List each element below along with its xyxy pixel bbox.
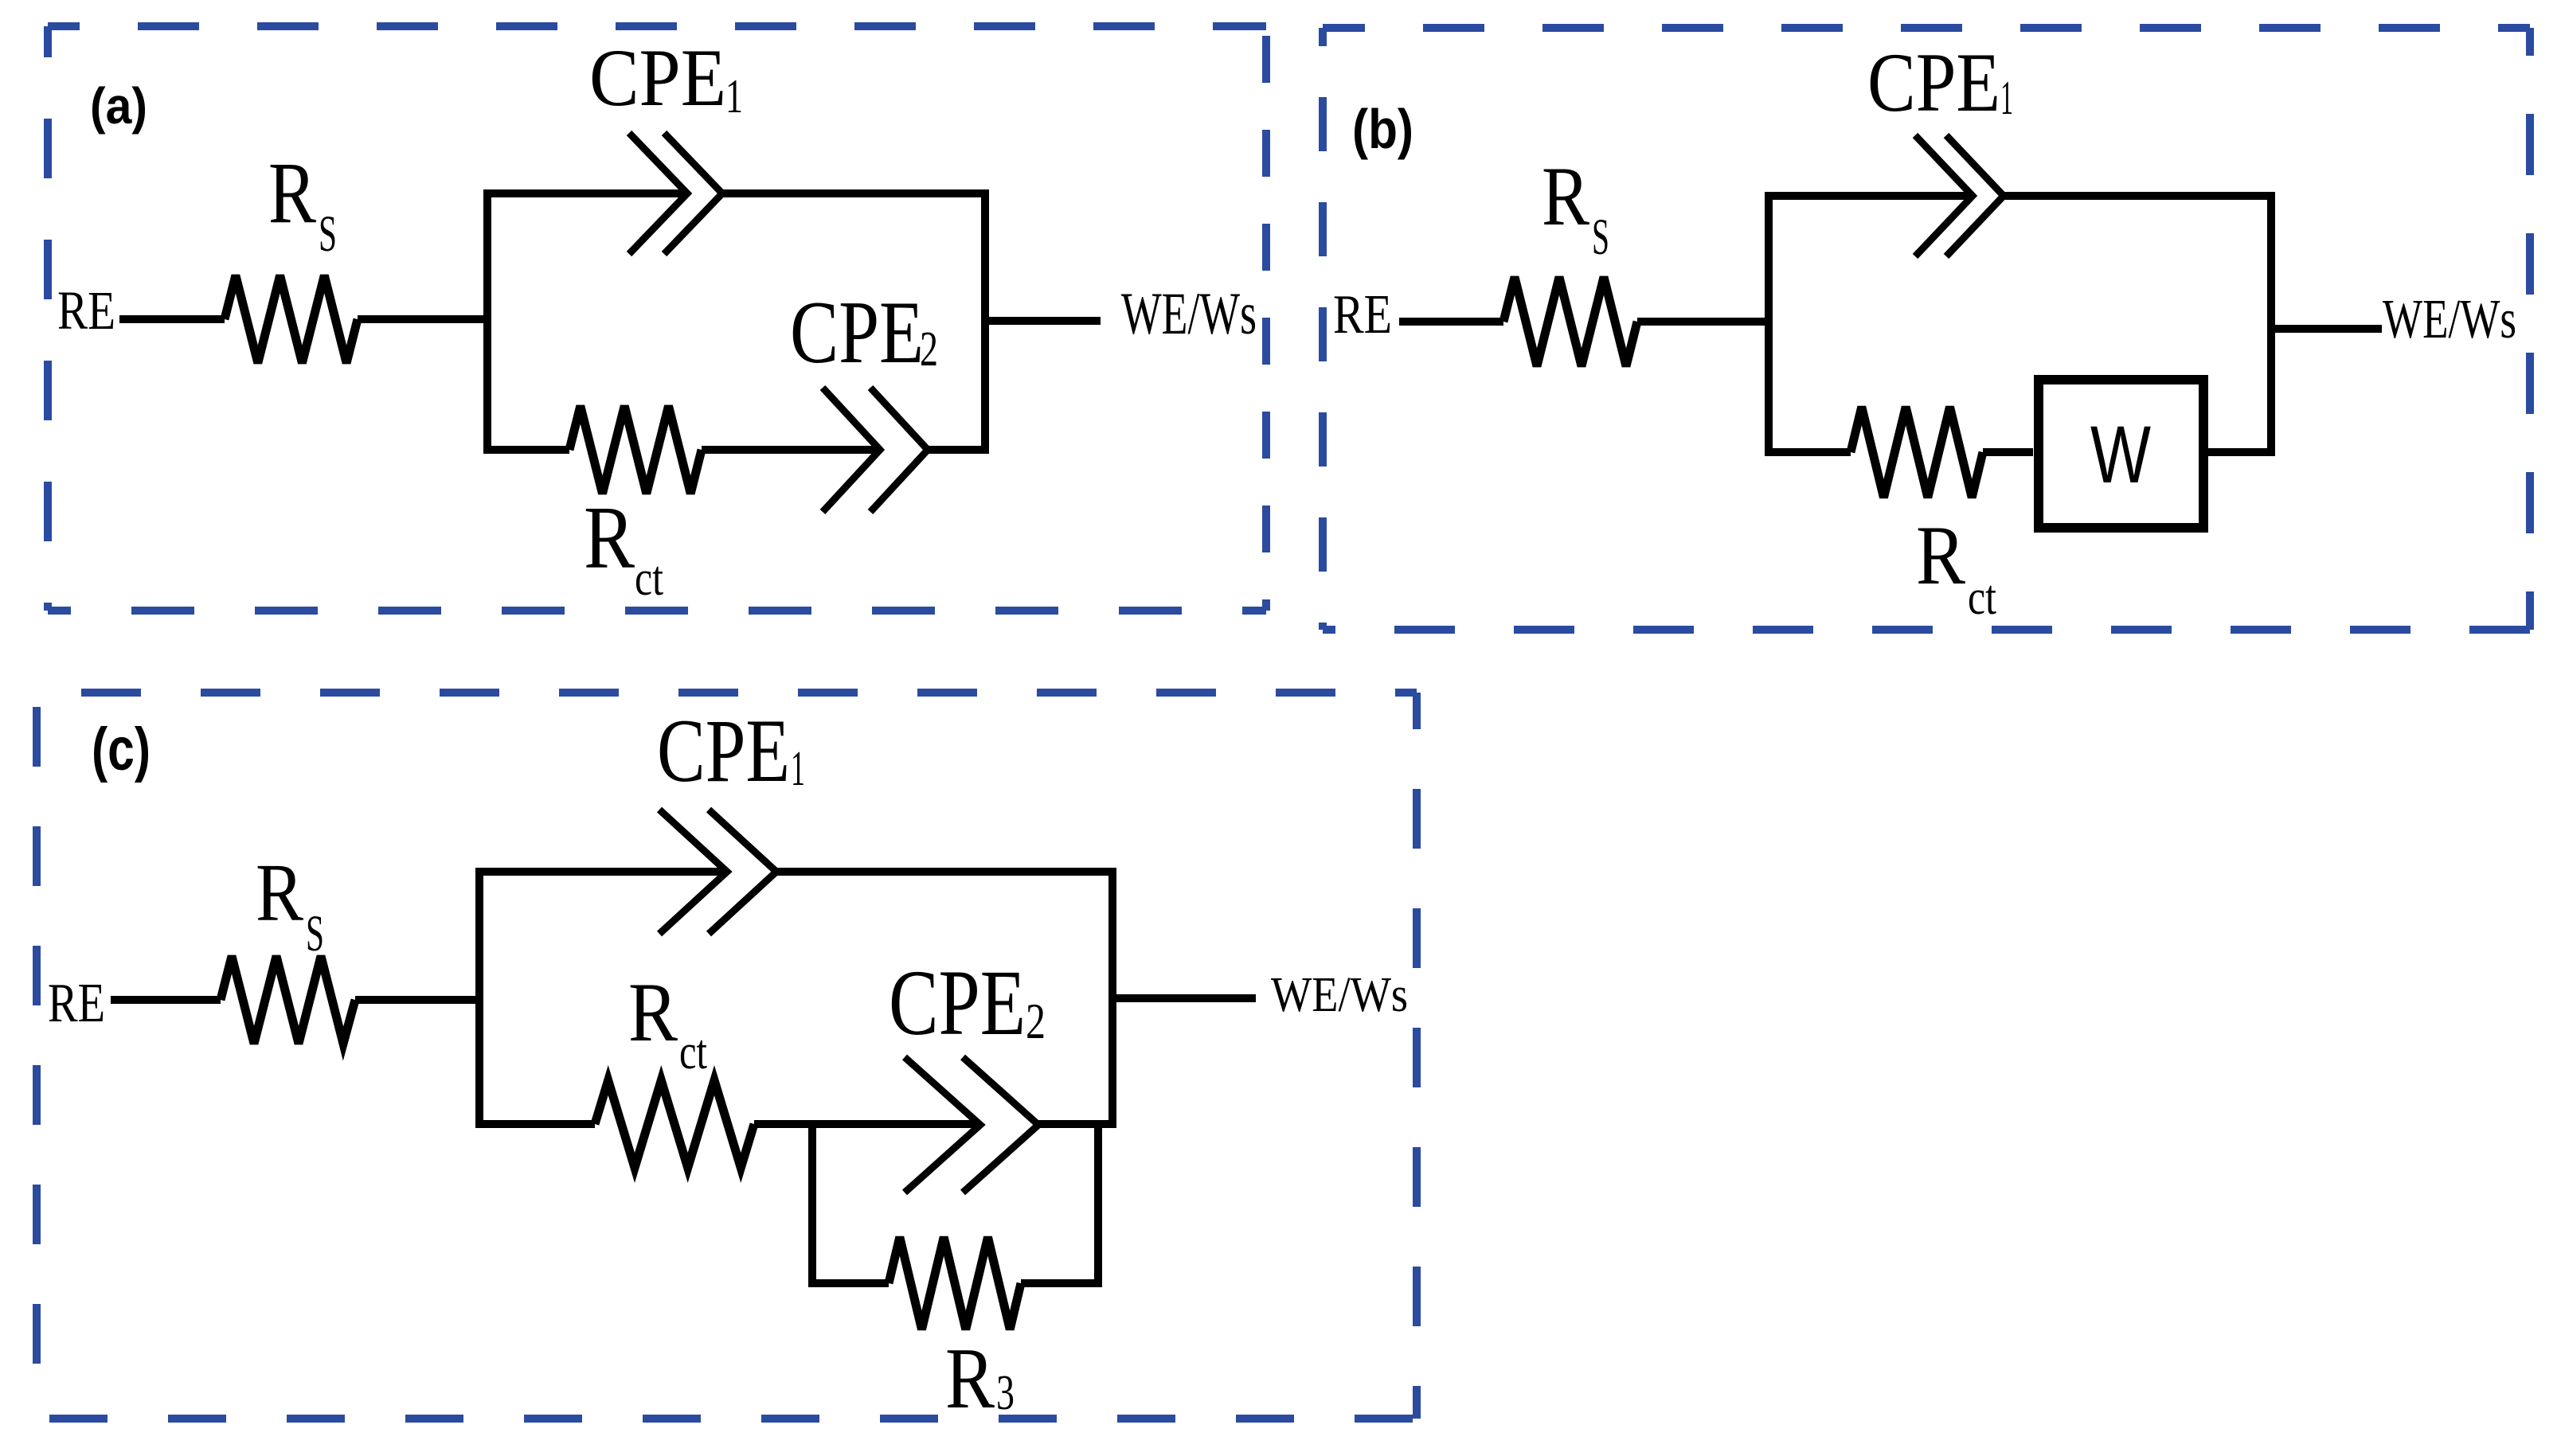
capacitor CPE1 symbol (c) [659,810,727,934]
wire top branch left (b) [1765,192,1973,200]
resistor Rs (c) [221,956,355,1044]
svg-text:1: 1 [2000,72,2013,124]
resistor Rs (b) [1503,277,1637,366]
wire RE to Rs (c) [111,996,221,1004]
svg-text:R: R [628,966,678,1059]
panel (a) dashed border left [44,26,52,611]
wire top branch left (c) [475,868,727,876]
svg-text:WE/Ws: WE/Ws [1121,281,1257,347]
wire W box to right vertical (b) [2204,448,2275,456]
wire bottom branch left (b) [1765,448,1851,456]
panel (b) dashed border bottom [1323,626,2530,634]
svg-text:S: S [319,205,337,263]
panel (c) dashed border bottom [37,1415,1417,1423]
wire to WE/Ws (a) [985,317,1101,325]
wire to WE/Ws (c) [1112,994,1256,1002]
capacitor CPE1 symbol (b) [1915,135,1973,256]
wire top branch right (b) [2004,192,2275,200]
wire Rs to node (b) [1637,318,1773,326]
svg-text:CPE: CPE [657,701,790,801]
svg-text:ct: ct [679,1025,707,1079]
resistor Rct (b) [1851,407,1983,498]
wire left vertical of parallel box (c) [475,868,483,1128]
wire Rct to W box (b) [1983,448,2033,456]
wire RE to Rs (a) [119,315,225,323]
capacitor CPE1 symbol (a) [629,133,687,254]
wire bottom branch left (a) [483,446,569,454]
wire top branch right (c) [776,868,1116,876]
svg-text:S: S [1592,209,1609,266]
wire top branch left (a) [483,189,687,197]
wire Rct to CPE2 (a) [702,446,880,454]
svg-text:3: 3 [996,1366,1015,1420]
resistor R3 (c) [889,1237,1021,1329]
svg-text:(c): (c) [92,716,151,783]
wire right vertical of parallel box (a) [981,189,989,454]
capacitor CPE2 symbol (c) [905,1057,980,1193]
wire CPE2 to right vertical (c) [1038,1120,1116,1128]
wire top branch right (a) [722,189,989,197]
resistor Rs (a) [225,275,358,363]
wire right vertical of parallel box (c) [1108,868,1116,1128]
wire RE to Rs (b) [1399,318,1503,326]
wire inner bottom right (c) [1021,1279,1102,1287]
svg-text:WE/Ws: WE/Ws [1271,968,1408,1022]
panel (a) dashed border right [1262,26,1270,611]
svg-text:CPE: CPE [889,950,1026,1055]
svg-text:R: R [1542,150,1589,243]
wire inner bottom left (c) [808,1279,889,1287]
svg-text:1: 1 [725,70,743,123]
svg-text:2: 2 [920,322,938,377]
panel (c) dashed border top [37,689,1417,697]
svg-text:1: 1 [791,742,805,796]
wire Rs to node (c) [355,996,483,1004]
wire bottom branch left (c) [475,1120,595,1128]
wire inner left vertical R3 loop (c) [808,1120,816,1287]
svg-text:CPE: CPE [589,33,726,123]
svg-text:R: R [256,847,304,939]
svg-text:RE: RE [57,280,115,341]
svg-text:R: R [945,1330,995,1427]
wire Rct to CPE2 (c) [754,1120,980,1128]
svg-text:ct: ct [1968,571,1996,625]
panel (c) dashed border right [1413,693,1421,1419]
svg-text:W: W [2090,409,2151,500]
svg-text:R: R [1916,509,1965,602]
capacitor CPE2 symbol (a) [823,388,880,512]
wire CPE2 to right vertical (a) [928,446,989,454]
wire right vertical of parallel box (b) [2267,192,2275,456]
svg-text:RE: RE [48,973,105,1034]
svg-text:(b): (b) [1352,98,1413,160]
svg-text:CPE: CPE [1867,36,2000,129]
wire left vertical of parallel box (b) [1765,192,1773,456]
panel (b) dashed border left [1319,28,1327,630]
svg-text:CPE: CPE [790,283,924,382]
wire left vertical of parallel box (a) [483,189,491,454]
panel (b) dashed border top [1323,24,2530,32]
svg-text:S: S [306,905,324,962]
Warburg element W box (b) [2039,380,2203,528]
wire inner right vertical R3 loop (c) [1094,1120,1102,1287]
svg-text:(a): (a) [90,77,147,135]
svg-text:WE/Ws: WE/Ws [2383,289,2516,350]
wire to WE/Ws (b) [2271,325,2382,333]
panel (c) dashed border left [33,693,41,1419]
resistor Rct (c) [595,1080,754,1168]
svg-text:R: R [584,489,635,587]
panel (a) dashed border bottom [48,607,1266,615]
svg-text:ct: ct [635,552,663,606]
panel (a) dashed border top [48,22,1266,30]
panel (b) dashed border right [2526,28,2534,630]
wire Rs to node (a) [358,315,491,323]
svg-text:R: R [268,144,317,241]
svg-text:RE: RE [1333,284,1392,345]
svg-text:2: 2 [1026,993,1046,1049]
resistor Rct (a) [569,406,702,494]
